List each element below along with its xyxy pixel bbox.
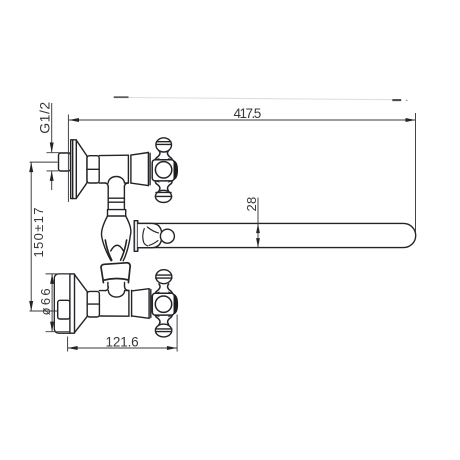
node lower wall cup shell [54, 274, 70, 333]
node upper valve body [99, 155, 128, 186]
node upper handle top ball [156, 138, 172, 152]
node spout ball joint [160, 229, 174, 243]
node lower joint ring [129, 290, 132, 316]
svg-text:G1/2: G1/2 [37, 102, 53, 134]
node dim 417.5 left extension [67, 115, 69, 203]
node upper joint ring [128, 155, 131, 183]
node dim 121.6 line [68, 347, 177, 349]
node lower collar cup [101, 263, 130, 283]
wire spout tube outline [138, 223, 416, 247]
node lower bonnet [132, 289, 151, 319]
node dim ø66 line [51, 274, 53, 332]
svg-text:28: 28 [244, 197, 259, 212]
node lower handle top neck [155, 284, 172, 294]
node upper flange plate [71, 140, 77, 199]
node dim 417.5 right extension [415, 113, 417, 233]
node dim 28 line [257, 198, 259, 248]
node dim 121.6 extensions [67, 337, 69, 352]
node mixer body (hourglass) [101, 216, 130, 261]
node collar ring [108, 210, 126, 216]
wire riser pipe lower [108, 282, 125, 287]
node dim G1/2 line [51, 103, 53, 152]
node upper handle hub [152, 160, 174, 181]
node lower handle front arm (dark) [174, 294, 178, 314]
svg-text:121.6: 121.6 [106, 334, 139, 349]
node stray artifact line [114, 96, 129, 98]
node upper wall stub G1/2 [59, 153, 71, 171]
node lower hex nut [87, 291, 99, 317]
node lower handle bottom ball [155, 324, 171, 337]
svg-text:417.5: 417.5 [234, 106, 262, 121]
wire riser pipe upper [108, 187, 124, 210]
node upper bonnet [131, 153, 150, 186]
node upper handle front arm (dark) [174, 160, 178, 180]
node lower valve body [99, 287, 128, 316]
node upper handle bottom neck [155, 181, 172, 191]
node lower handle bottom neck [155, 315, 172, 325]
node dimension arrowheads [29, 118, 415, 350]
node upper hex nut [87, 156, 99, 183]
node upper flange cone [76, 140, 87, 198]
node spout flange plate [134, 221, 138, 252]
node dim 150±17 line [30, 162, 32, 311]
node upper handle bottom ball [155, 190, 171, 202]
svg-text:ø66: ø66 [38, 288, 53, 315]
node dim G1/2 extensions [47, 152, 71, 154]
node lower flange cone [75, 275, 88, 333]
node lower flange plate [70, 274, 75, 333]
node dim ø66 extensions [46, 273, 71, 275]
node lower handle top ball [156, 270, 172, 284]
node spout socket body [138, 223, 162, 247]
node upper handle top neck [155, 150, 172, 160]
node lower wall stub G1/2 [58, 300, 70, 319]
node dim 150±17 extensions [30, 161, 58, 163]
node dim 417.5 line [69, 119, 416, 121]
node lower handle hub [152, 293, 174, 315]
